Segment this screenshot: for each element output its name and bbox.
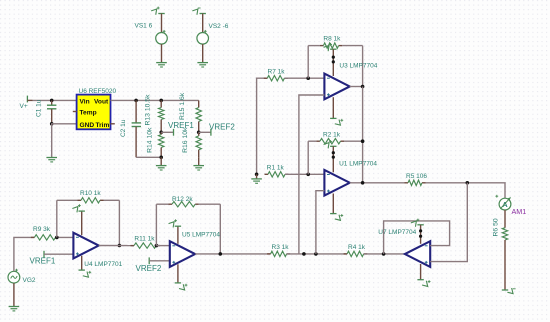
wire U6 Vout rail <box>111 99 199 101</box>
ground at R1 R7 rail <box>251 178 262 180</box>
svg-text:R9 3k: R9 3k <box>33 226 51 233</box>
svg-text:U5 LMP7704: U5 LMP7704 <box>182 231 220 238</box>
wire R16 bottom to ground <box>198 157 200 165</box>
V- jumper below U1 <box>332 194 334 214</box>
junction R1 left <box>255 173 259 177</box>
wire U5 output to R3 <box>195 253 271 255</box>
svg-text:U6 REF5020: U6 REF5020 <box>79 88 117 95</box>
resistor R14 <box>160 132 162 134</box>
resistor R3 <box>267 253 271 255</box>
wire U3 noninverting loop <box>299 95 325 254</box>
op-amp U1 <box>324 170 349 196</box>
V- jumper below U3 <box>332 97 334 118</box>
svg-text:R1 1k: R1 1k <box>267 164 285 171</box>
ground below R16 <box>193 165 204 167</box>
V- jumper below U5 <box>177 264 179 283</box>
wire R12 left vertical <box>155 204 157 245</box>
V+ jumper above U3 <box>330 48 336 50</box>
wire VS2 bottom <box>202 44 204 62</box>
junction R2 right <box>361 139 365 143</box>
capacitor C2 <box>135 100 137 122</box>
wire R8 right vertical <box>362 46 364 87</box>
resistor R4 <box>344 253 348 255</box>
wire V+ to U6 Vin <box>27 99 32 101</box>
svg-text:R11 1k: R11 1k <box>134 236 155 243</box>
svg-text:R6 50: R6 50 <box>492 218 499 236</box>
svg-text:Vout: Vout <box>94 98 109 105</box>
svg-text:AM1: AM1 <box>512 207 527 216</box>
ground below VS2 <box>197 62 208 64</box>
svg-text:U3 LMP7704: U3 LMP7704 <box>339 63 377 70</box>
resistor R8 <box>308 45 320 47</box>
V- jumper below U7 <box>420 264 422 280</box>
junction R13 top <box>159 99 163 103</box>
resistor R11 <box>131 245 135 247</box>
wire U7 feedback loop <box>384 221 450 254</box>
resistor R12 <box>156 203 168 205</box>
IC U6 REF5020 <box>77 95 111 130</box>
voltage source VS2 <box>197 33 209 45</box>
pin Temp stub <box>73 111 77 113</box>
junction U3 noninverting feed <box>302 252 306 256</box>
wire U1 noninverting loop <box>316 191 325 254</box>
resistor R13 <box>160 100 162 107</box>
resistor R7 <box>264 77 268 79</box>
wire U4 output to R11 <box>99 245 134 247</box>
wire R11 to U5 inverting input <box>156 245 169 247</box>
svg-text:R5 106: R5 106 <box>406 173 427 180</box>
node VREF1 tap <box>161 131 173 133</box>
node V- jumper below R6 <box>502 289 508 291</box>
ground below C1 <box>46 157 57 159</box>
resistor R10 <box>57 199 78 201</box>
svg-text:Trim: Trim <box>95 122 109 129</box>
svg-text:R7 1k: R7 1k <box>268 69 286 76</box>
svg-text:VS2 -6: VS2 -6 <box>209 23 229 30</box>
junction C1 top <box>50 99 54 103</box>
junction R14 bottom <box>159 156 163 160</box>
wire R14 bottom to ground <box>160 157 162 165</box>
svg-text:R15 1.6k: R15 1.6k <box>179 92 186 120</box>
svg-text:Temp: Temp <box>80 110 97 117</box>
wire U3 out to U1 out vertical <box>362 87 364 183</box>
svg-text:U1 LMP7704: U1 LMP7704 <box>339 160 377 167</box>
wire R6 to V- jumper <box>504 240 506 290</box>
wire VG2 to R9 <box>14 237 35 271</box>
svg-text:R8 1k: R8 1k <box>323 35 341 42</box>
V+ jumper above U5 <box>177 226 179 244</box>
op-amp U7 <box>405 241 430 267</box>
wire U7 noninverting to sense <box>430 183 467 262</box>
svg-text:R16 10k: R16 10k <box>182 127 189 153</box>
resistor R16 <box>198 132 200 136</box>
junction R10 right at U4 output <box>118 244 122 248</box>
resistor R1 <box>265 173 269 175</box>
wire R7 ground rail <box>257 78 268 174</box>
junction R10 left <box>55 236 59 240</box>
svg-text:R13 10.5k: R13 10.5k <box>145 94 152 126</box>
ground below VS1 <box>156 62 167 64</box>
svg-text:R2 1k: R2 1k <box>323 131 341 138</box>
node V- jumper at VS2 <box>200 13 206 15</box>
wire to ground left of R1 <box>256 174 258 178</box>
wire U6 GND to ground <box>52 124 77 157</box>
junction U1 noninverting feed <box>314 252 318 256</box>
junction U1 output <box>361 181 365 185</box>
svg-text:Vin: Vin <box>80 98 90 105</box>
svg-text:VREF2: VREF2 <box>136 264 162 273</box>
wire U1 output to AM1 <box>350 182 405 184</box>
wire AM1 to R6 <box>504 210 506 228</box>
svg-text:R4 1k: R4 1k <box>348 244 366 251</box>
junction VREF2 divider <box>197 131 201 135</box>
junction U7 sense tap <box>466 181 470 185</box>
junction C1 bottom <box>50 122 54 126</box>
V+ jumper above U4 <box>81 211 83 235</box>
wire VS2 top <box>202 14 204 33</box>
voltage source VS1 <box>156 33 168 45</box>
junction U7 feedback <box>382 252 386 256</box>
svg-text:V+: V+ <box>20 103 28 110</box>
node VREF1 at U4 <box>43 251 45 258</box>
svg-text:U4 LMP7701: U4 LMP7701 <box>84 261 122 268</box>
ground below R14 <box>156 165 167 167</box>
junction C2 top <box>134 99 138 103</box>
op-amp U3 <box>324 74 349 100</box>
node VREF2 tap <box>199 131 211 133</box>
svg-text:VREF2: VREF2 <box>209 122 235 131</box>
resistor R2 <box>308 140 316 142</box>
voltage generator VG2 <box>8 271 20 283</box>
V- jumper below U4 <box>81 256 83 270</box>
op-amp U4 <box>73 233 98 259</box>
wire R9 to U4 inverting input <box>56 236 74 238</box>
junction R8 left <box>306 76 310 80</box>
svg-text:R3 1k: R3 1k <box>272 244 290 251</box>
pin Trim stub <box>111 123 115 125</box>
ground below VG2 <box>9 306 20 308</box>
wire R4 to U7 <box>364 253 405 255</box>
resistor R6 <box>502 228 507 240</box>
junction R2 left <box>306 173 310 177</box>
wire R1 to U1 inverting input <box>285 173 324 175</box>
svg-text:C2 1u: C2 1u <box>120 119 127 137</box>
svg-text:R12 2k: R12 2k <box>172 196 193 203</box>
wire U3 output <box>350 86 363 88</box>
ammeter AM1 <box>499 198 511 210</box>
resistor R5 <box>405 182 409 184</box>
wire R8 left vertical <box>307 46 309 79</box>
wire R3 to R4 <box>287 253 348 255</box>
junction VREF1 divider <box>159 131 163 135</box>
svg-text:VS1 6: VS1 6 <box>135 23 153 30</box>
svg-text:R14 10k: R14 10k <box>146 127 153 153</box>
svg-text:VREF1: VREF1 <box>30 256 56 265</box>
junction R12 right at U5 output <box>219 252 223 256</box>
wire VG2 bottom <box>13 283 15 306</box>
svg-text:GND: GND <box>80 122 95 129</box>
wire VS1 top <box>161 14 163 33</box>
wire R2 left vertical <box>307 141 309 174</box>
node V+ jumper at VS1 <box>158 13 164 15</box>
wire R10 right vertical <box>118 200 120 245</box>
resistor R9 <box>31 236 35 238</box>
wire C2 bottom to R14 bottom <box>136 156 161 158</box>
svg-text:R10 1k: R10 1k <box>80 190 101 197</box>
capacitor C1 <box>51 100 53 105</box>
wire R10 left vertical <box>56 200 58 237</box>
wire R12 right vertical <box>219 204 221 254</box>
junction R12 left at U5 inverting <box>155 244 159 248</box>
node VREF2 at U5 <box>148 257 150 264</box>
wire VS1 bottom <box>161 44 163 62</box>
svg-text:VG2: VG2 <box>23 277 36 284</box>
V+ jumper above U7 <box>417 224 423 226</box>
V+ jumper above U1 <box>330 145 336 147</box>
op-amp U5 <box>170 241 195 267</box>
svg-text:C1 1u: C1 1u <box>35 99 42 117</box>
wire R7 to U3 inverting input <box>284 77 324 79</box>
resistor R15 <box>198 100 200 107</box>
junction U3 output <box>361 85 365 89</box>
